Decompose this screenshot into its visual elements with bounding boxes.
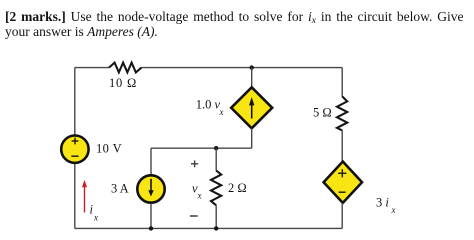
svg-text:x: x bbox=[219, 107, 224, 117]
node junction dot bottom left bbox=[149, 226, 153, 230]
current source 3 A (circle with down arrow) bbox=[137, 175, 164, 202]
wire between 5 ohm and dependent voltage source bbox=[341, 130, 343, 162]
wire left vertical upper bbox=[74, 68, 76, 135]
label plus of vx bbox=[191, 160, 198, 167]
resistor 2 ohm bbox=[211, 171, 221, 206]
svg-text:10 Ω: 10 Ω bbox=[109, 76, 137, 90]
wire below 3A source bbox=[150, 204, 152, 229]
wire from middle node down to 2 ohm resistor bbox=[215, 148, 217, 171]
wire from top node down to dependent source bbox=[251, 68, 253, 88]
node junction dot middle bbox=[214, 146, 218, 150]
svg-text:your answer is Amperes (A).: your answer is Amperes (A). bbox=[5, 24, 158, 39]
wire below dependent current source bbox=[251, 128, 253, 148]
dependent current source 1.0 vx (diamond with up arrow) bbox=[231, 87, 272, 128]
label minus of vx bbox=[190, 215, 198, 217]
wire bottom horizontal bbox=[75, 227, 342, 229]
wire left vertical lower bbox=[74, 164, 76, 229]
wire top-left segment bbox=[75, 67, 109, 69]
wire right vertical upper bbox=[341, 68, 343, 97]
svg-text:5 Ω: 5 Ω bbox=[313, 106, 332, 120]
resistor 10 ohm bbox=[109, 63, 142, 73]
node junction dot top bbox=[250, 65, 254, 69]
svg-text:x: x bbox=[197, 191, 202, 201]
wire from middle node down to 3A source bbox=[150, 148, 152, 175]
wire top-right segment bbox=[142, 67, 343, 69]
svg-text:3 A: 3 A bbox=[111, 182, 129, 196]
resistor 5 ohm bbox=[337, 96, 347, 130]
wire below dependent voltage source bbox=[341, 203, 343, 229]
svg-text:1.0 v: 1.0 v bbox=[196, 98, 221, 112]
svg-text:x: x bbox=[93, 213, 98, 223]
wire below 2 ohm resistor bbox=[215, 205, 217, 228]
node junction dot bottom middle bbox=[214, 226, 218, 230]
svg-text:x: x bbox=[391, 205, 396, 215]
svg-text:10 V: 10 V bbox=[96, 142, 122, 156]
wire middle horizontal node bbox=[151, 147, 252, 149]
dependent voltage source 3 ix (diamond with plus minus) bbox=[324, 162, 362, 203]
current ix red arrow bbox=[82, 180, 87, 213]
svg-text:2 Ω: 2 Ω bbox=[228, 181, 247, 195]
svg-text:3 i: 3 i bbox=[376, 196, 389, 210]
svg-text:i: i bbox=[90, 203, 94, 217]
voltage source 10 V bbox=[61, 136, 88, 163]
